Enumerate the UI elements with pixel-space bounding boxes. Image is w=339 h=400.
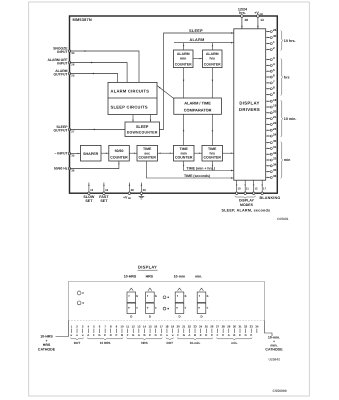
svg-text:A: A <box>188 333 190 337</box>
svg-text:SLEEP: SLEEP <box>136 125 149 129</box>
svg-text:30: 30 <box>273 139 277 143</box>
svg-text:COUNTER: COUNTER <box>175 156 193 160</box>
svg-text:f: f <box>129 294 130 298</box>
svg-text:TIME: TIME <box>143 147 152 151</box>
svg-text:C05891: C05891 <box>277 217 289 221</box>
svg-text:DISPLAY: DISPLAY <box>239 101 259 106</box>
svg-text:25: 25 <box>71 74 75 78</box>
svg-text:B: B <box>194 333 196 337</box>
svg-text:10 HRS: 10 HRS <box>100 341 111 345</box>
svg-text:17: 17 <box>263 187 267 191</box>
svg-text:CS56999: CS56999 <box>273 389 287 393</box>
svg-text:ALARM CIRCUITS: ALARM CIRCUITS <box>111 88 150 93</box>
svg-text:50/60: 50/60 <box>115 149 124 153</box>
svg-text:40: 40 <box>273 34 277 38</box>
svg-text:hrs.: hrs. <box>239 11 246 15</box>
svg-text:35: 35 <box>273 168 277 172</box>
svg-text:34: 34 <box>273 162 277 166</box>
svg-text:10 min.: 10 min. <box>284 117 297 121</box>
svg-text:DISPLAY: DISPLAY <box>239 198 255 202</box>
svg-text:26: 26 <box>273 28 277 32</box>
svg-text:24: 24 <box>273 133 277 137</box>
svg-text:11: 11 <box>246 187 249 191</box>
svg-text:29: 29 <box>143 188 147 192</box>
svg-text:36: 36 <box>71 169 75 173</box>
svg-text:C: C <box>250 333 252 337</box>
svg-text:18: 18 <box>273 98 277 102</box>
svg-text:D: D <box>130 315 132 319</box>
svg-text:22: 22 <box>273 121 277 125</box>
svg-text:D: D <box>155 333 157 337</box>
svg-text:35: 35 <box>71 154 75 158</box>
svg-text:SLEEP CIRCUITS: SLEEP CIRCUITS <box>111 105 148 110</box>
svg-text:TIME (seconds): TIME (seconds) <box>184 174 210 178</box>
svg-text:HRS: HRS <box>146 274 154 278</box>
svg-text:u: u <box>172 333 174 337</box>
svg-text:D: D <box>200 315 202 319</box>
svg-text:32: 32 <box>244 325 248 329</box>
svg-text:19: 19 <box>171 325 175 329</box>
svg-text:INPUT: INPUT <box>57 50 68 54</box>
svg-text:DOWNCOUNTER: DOWNCOUNTER <box>127 131 158 135</box>
svg-text:SLEEP, ALARM, seconds: SLEEP, ALARM, seconds <box>222 209 271 213</box>
svg-text:b: b <box>155 294 157 298</box>
svg-text:COUNTER: COUNTER <box>138 156 156 160</box>
svg-text:31: 31 <box>238 325 242 329</box>
svg-text:21: 21 <box>182 325 186 329</box>
svg-text:10 hrs.: 10 hrs. <box>284 39 296 43</box>
svg-text:A: A <box>87 333 89 337</box>
svg-text:24: 24 <box>199 325 203 329</box>
svg-text:B: B <box>233 333 235 337</box>
svg-text:MODES: MODES <box>240 203 254 207</box>
svg-text:F: F <box>177 333 179 337</box>
svg-text:A: A <box>228 333 230 337</box>
svg-text:26: 26 <box>71 63 75 67</box>
svg-text:17: 17 <box>160 325 164 329</box>
svg-text:DD: DD <box>260 13 264 16</box>
svg-text:E: E <box>104 333 106 337</box>
svg-text:ALARM: ALARM <box>206 52 219 56</box>
svg-text:F: F <box>127 333 129 337</box>
svg-text:15: 15 <box>149 325 153 329</box>
svg-text:MM5387N: MM5387N <box>73 17 92 22</box>
svg-text:C: C <box>115 333 117 337</box>
svg-text:G: G <box>132 333 134 337</box>
svg-text:DD: DD <box>128 197 132 200</box>
svg-text:20: 20 <box>177 325 181 329</box>
svg-text:u: u <box>71 333 73 337</box>
svg-text:21: 21 <box>273 115 277 119</box>
svg-text:U25842: U25842 <box>269 358 281 362</box>
svg-text:13: 13 <box>260 18 264 22</box>
svg-text:C: C <box>160 333 162 337</box>
svg-text:f: f <box>147 294 148 298</box>
svg-text:b: b <box>185 294 187 298</box>
svg-text:22: 22 <box>188 325 192 329</box>
svg-text:COUNTER: COUNTER <box>175 62 192 66</box>
svg-text:CATHODE: CATHODE <box>265 347 283 351</box>
svg-text:ALARM: ALARM <box>189 38 204 42</box>
svg-text:u: u <box>76 333 78 337</box>
svg-text:B: B <box>121 333 123 337</box>
svg-text:ALARM: ALARM <box>177 52 190 56</box>
svg-text:28: 28 <box>131 188 135 192</box>
svg-text:COUNTER: COUNTER <box>110 155 128 159</box>
svg-text:27: 27 <box>71 130 75 134</box>
svg-text:27: 27 <box>216 325 220 329</box>
svg-text:DRIVERS: DRIVERS <box>239 107 260 112</box>
svg-text:34: 34 <box>255 325 259 329</box>
svg-text:10-min.: 10-min. <box>190 341 201 345</box>
svg-text:hrs: hrs <box>209 57 215 61</box>
svg-text:SLEEP: SLEEP <box>189 29 203 33</box>
svg-text:23: 23 <box>273 127 277 131</box>
svg-text:TIME: TIME <box>179 147 188 151</box>
svg-text:BLANKING: BLANKING <box>260 196 281 200</box>
svg-text:D: D <box>178 315 180 319</box>
svg-text:SET: SET <box>85 199 93 203</box>
svg-text:10-min: 10-min <box>174 274 185 278</box>
svg-text:E: E <box>239 333 241 337</box>
svg-text:~ INPUT: ~ INPUT <box>54 152 68 156</box>
svg-text:f: f <box>177 294 178 298</box>
svg-text:TIME (min + hrs.): TIME (min + hrs.) <box>187 166 216 170</box>
svg-text:12: 12 <box>254 187 258 191</box>
svg-text:19: 19 <box>273 104 277 108</box>
svg-text:f: f <box>199 294 200 298</box>
svg-text:10-HRS: 10-HRS <box>124 274 137 278</box>
svg-text:DOT: DOT <box>167 341 174 345</box>
svg-text:23: 23 <box>193 325 197 329</box>
svg-text:HRS: HRS <box>141 341 147 345</box>
svg-text:min.: min. <box>231 341 237 345</box>
svg-text:min.: min. <box>195 274 202 278</box>
svg-text:29: 29 <box>227 325 231 329</box>
svg-text:13: 13 <box>90 188 94 192</box>
svg-text:min: min <box>284 158 291 162</box>
svg-text:F: F <box>217 333 219 337</box>
svg-text:b: b <box>136 294 138 298</box>
svg-text:u: u <box>82 333 84 337</box>
svg-text:10: 10 <box>120 325 124 329</box>
svg-text:16: 16 <box>154 325 158 329</box>
svg-text:min: min <box>180 57 186 61</box>
svg-text:hrs: hrs <box>284 75 290 79</box>
svg-text:13: 13 <box>137 325 141 329</box>
svg-text:B: B <box>143 333 145 337</box>
svg-text:u: u <box>166 333 168 337</box>
svg-text:SHAPER: SHAPER <box>83 152 99 156</box>
svg-text:C: C <box>222 333 224 337</box>
svg-text:34: 34 <box>71 51 75 55</box>
svg-text:TIME: TIME <box>208 147 217 151</box>
svg-text:36: 36 <box>273 174 277 178</box>
svg-text:10: 10 <box>237 187 241 191</box>
svg-text:50/60 Hz: 50/60 Hz <box>54 167 68 171</box>
svg-text:DISPLAY: DISPLAY <box>138 264 157 269</box>
svg-text:b: b <box>207 294 209 298</box>
svg-text:C: C <box>211 333 213 337</box>
svg-text:COMPARATOR: COMPARATOR <box>184 108 212 113</box>
svg-text:COUNTER: COUNTER <box>203 156 221 160</box>
svg-text:OUTPUT: OUTPUT <box>53 72 68 76</box>
svg-text:INPUT: INPUT <box>57 61 68 65</box>
svg-text:31: 31 <box>273 145 277 149</box>
svg-text:12: 12 <box>132 325 136 329</box>
svg-text:18: 18 <box>165 325 169 329</box>
svg-text:25: 25 <box>205 325 209 329</box>
svg-text:ALARM / TIME: ALARM / TIME <box>184 100 211 105</box>
svg-text:E: E <box>200 333 202 337</box>
svg-text:A: A <box>138 333 140 337</box>
svg-text:SET: SET <box>100 199 108 203</box>
svg-text:20: 20 <box>273 109 277 113</box>
svg-text:G: G <box>98 333 100 337</box>
svg-text:D: D <box>245 333 247 337</box>
svg-text:D: D <box>149 315 151 319</box>
svg-text:28: 28 <box>222 325 226 329</box>
svg-text:E: E <box>149 333 151 337</box>
svg-text:OUTPUT: OUTPUT <box>53 128 68 132</box>
svg-text:26: 26 <box>210 325 214 329</box>
svg-text:28: 28 <box>245 18 249 22</box>
svg-text:G: G <box>183 333 185 337</box>
svg-text:COUNTER: COUNTER <box>204 62 221 66</box>
svg-text:30: 30 <box>233 325 237 329</box>
svg-text:D: D <box>110 333 112 337</box>
svg-text:CATHODE: CATHODE <box>38 347 56 351</box>
svg-text:33: 33 <box>250 325 254 329</box>
svg-text:32: 32 <box>273 151 277 155</box>
svg-text:14: 14 <box>143 325 147 329</box>
svg-text:D: D <box>205 333 207 337</box>
svg-text:16: 16 <box>105 188 109 192</box>
svg-text:10-HRS: 10-HRS <box>40 335 53 339</box>
svg-text:DOT: DOT <box>74 341 81 345</box>
svg-text:33: 33 <box>273 157 277 161</box>
svg-text:F: F <box>93 333 95 337</box>
svg-text:11: 11 <box>126 325 129 329</box>
